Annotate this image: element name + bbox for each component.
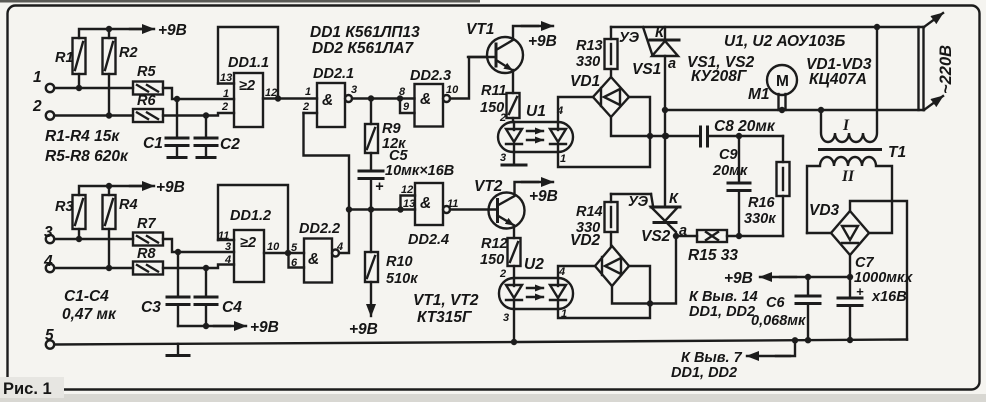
svg-text:VD3: VD3 <box>809 202 840 219</box>
svg-text:330к: 330к <box>744 211 776 227</box>
svg-text:13: 13 <box>220 72 232 84</box>
svg-text:5: 5 <box>291 242 298 254</box>
svg-text:DD2.3: DD2.3 <box>410 68 451 84</box>
svg-text:DD1.1: DD1.1 <box>228 55 269 71</box>
svg-text:R7: R7 <box>137 216 156 232</box>
svg-text:&: & <box>322 92 333 109</box>
svg-text:С9: С9 <box>719 147 738 163</box>
svg-text:13: 13 <box>403 198 415 210</box>
svg-text:VT1, VT2: VT1, VT2 <box>413 292 479 309</box>
svg-text:R2: R2 <box>119 45 138 61</box>
svg-text:С4: С4 <box>222 299 242 316</box>
svg-text:1: 1 <box>305 86 311 98</box>
svg-text:3: 3 <box>225 241 231 253</box>
svg-text:150: 150 <box>480 252 504 268</box>
svg-text:КТ315Г: КТ315Г <box>417 309 473 326</box>
svg-text:8: 8 <box>399 86 406 98</box>
svg-text:10: 10 <box>446 84 459 96</box>
svg-text:3: 3 <box>503 312 509 324</box>
svg-text:R13: R13 <box>576 38 603 54</box>
svg-text:4: 4 <box>336 241 343 253</box>
svg-text:R11: R11 <box>481 83 507 99</box>
svg-text:1: 1 <box>560 153 566 165</box>
svg-text:2: 2 <box>32 98 42 115</box>
svg-text:DD2.1: DD2.1 <box>313 66 354 82</box>
svg-text:2: 2 <box>499 112 506 124</box>
svg-text:3: 3 <box>351 84 357 96</box>
svg-text:+9В: +9В <box>724 270 753 287</box>
svg-text:С7: С7 <box>855 255 874 271</box>
svg-text:К Выв. 7: К Выв. 7 <box>681 350 743 366</box>
svg-text:R5: R5 <box>137 64 156 80</box>
svg-text:R5-R8 620к: R5-R8 620к <box>45 148 129 165</box>
svg-text:12: 12 <box>265 87 277 99</box>
svg-text:VS2: VS2 <box>641 228 671 245</box>
svg-text:К Выв. 14: К Выв. 14 <box>689 289 758 305</box>
svg-text:10мк×16В: 10мк×16В <box>385 163 454 179</box>
svg-text:VS1: VS1 <box>632 61 661 78</box>
svg-text:+9В: +9В <box>349 321 378 338</box>
svg-text:VT2: VT2 <box>474 178 503 195</box>
svg-text:К: К <box>655 25 665 41</box>
svg-text:DD1, DD2: DD1, DD2 <box>671 365 737 381</box>
svg-text:4: 4 <box>43 253 53 270</box>
svg-text:0,068мк: 0,068мк <box>751 313 806 329</box>
svg-text:2: 2 <box>302 101 309 113</box>
svg-text:&: & <box>420 195 431 212</box>
svg-text:R10: R10 <box>386 254 413 270</box>
svg-text:R3: R3 <box>55 199 74 215</box>
svg-text:II: II <box>841 168 855 185</box>
svg-text:DD1.2: DD1.2 <box>230 208 271 224</box>
svg-text:М: М <box>776 73 789 90</box>
svg-text:3: 3 <box>44 224 53 241</box>
svg-text:DD2 К561ЛА7: DD2 К561ЛА7 <box>312 40 415 57</box>
svg-text:С8 20мк: С8 20мк <box>714 118 776 135</box>
svg-text:С3: С3 <box>141 299 161 316</box>
svg-text:R8: R8 <box>137 246 156 262</box>
svg-text:М1: М1 <box>748 86 770 103</box>
svg-text:4: 4 <box>224 254 231 266</box>
svg-text:DD1 К561ЛП13: DD1 К561ЛП13 <box>310 24 420 41</box>
svg-text:+9В: +9В <box>250 319 279 336</box>
svg-text:5: 5 <box>45 327 54 344</box>
svg-text:а: а <box>668 56 676 72</box>
svg-text:VD1: VD1 <box>570 73 600 90</box>
svg-text:U1: U1 <box>526 103 546 120</box>
svg-text:6: 6 <box>291 257 298 269</box>
svg-text:3: 3 <box>500 152 506 164</box>
svg-text:х16В: х16В <box>871 289 907 305</box>
svg-text:УЭ: УЭ <box>628 194 649 210</box>
svg-text:С1-С4: С1-С4 <box>64 288 109 305</box>
svg-text:+: + <box>375 179 384 195</box>
svg-text:0,47 мк: 0,47 мк <box>62 306 117 323</box>
svg-text:DD2.4: DD2.4 <box>408 232 449 248</box>
svg-text:≥2: ≥2 <box>239 78 255 94</box>
svg-text:R12: R12 <box>481 236 508 252</box>
svg-text:С6: С6 <box>766 295 785 311</box>
svg-text:Рис. 1: Рис. 1 <box>3 380 52 398</box>
svg-text:11: 11 <box>447 198 458 210</box>
svg-text:С5: С5 <box>389 148 408 164</box>
svg-text:2: 2 <box>499 268 506 280</box>
svg-text:330: 330 <box>576 54 600 70</box>
svg-text:+9В: +9В <box>156 179 185 196</box>
svg-text:1000мкх: 1000мкх <box>854 270 913 286</box>
svg-text:12: 12 <box>401 184 413 196</box>
svg-text:R1-R4 15к: R1-R4 15к <box>45 128 120 145</box>
svg-text:≥2: ≥2 <box>240 235 256 251</box>
svg-text:1: 1 <box>33 69 42 86</box>
svg-text:R16: R16 <box>748 195 776 211</box>
svg-text:&: & <box>420 91 431 108</box>
svg-text:&: & <box>308 251 319 268</box>
svg-text:VD2: VD2 <box>570 232 601 249</box>
svg-text:+9В: +9В <box>528 33 557 50</box>
svg-text:I: I <box>842 117 850 134</box>
svg-text:510к: 510к <box>386 271 418 287</box>
svg-text:+: + <box>856 284 864 299</box>
svg-text:DD1, DD2: DD1, DD2 <box>689 304 755 320</box>
svg-text:УЭ: УЭ <box>619 30 640 46</box>
svg-text:DD2.2: DD2.2 <box>299 221 340 237</box>
svg-text:К: К <box>669 191 679 207</box>
svg-text:1: 1 <box>223 88 229 100</box>
svg-text:R15 33: R15 33 <box>688 247 738 264</box>
svg-text:2: 2 <box>221 101 228 113</box>
svg-text:R1: R1 <box>55 50 74 66</box>
svg-text:Т1: Т1 <box>888 144 906 161</box>
svg-text:9: 9 <box>403 101 410 113</box>
svg-text:20мк: 20мк <box>712 163 748 179</box>
svg-text:10: 10 <box>267 241 280 253</box>
svg-text:С1: С1 <box>143 135 163 152</box>
svg-text:+9В: +9В <box>529 188 558 205</box>
svg-text:U2: U2 <box>524 256 544 273</box>
svg-text:+9В: +9В <box>158 22 187 39</box>
svg-text:R9: R9 <box>382 121 401 137</box>
svg-text:R6: R6 <box>137 93 156 109</box>
svg-text:R14: R14 <box>576 204 603 220</box>
svg-text:VT1: VT1 <box>466 21 494 38</box>
svg-text:С2: С2 <box>220 136 240 153</box>
svg-text:КУ208Г: КУ208Г <box>691 68 748 85</box>
svg-text:~220В: ~220В <box>937 45 955 94</box>
svg-text:U1, U2 АОУ103Б: U1, U2 АОУ103Б <box>724 33 845 50</box>
svg-text:R4: R4 <box>119 197 138 213</box>
svg-text:КЦ407А: КЦ407А <box>809 71 867 88</box>
